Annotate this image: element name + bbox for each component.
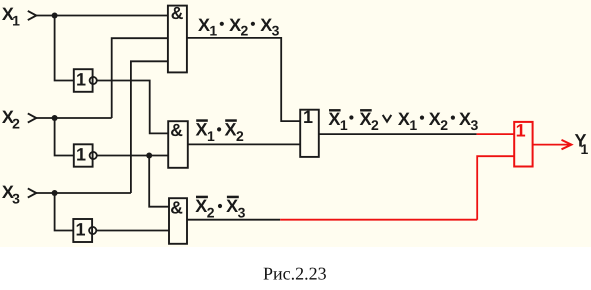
svg-text:2: 2 <box>371 117 379 133</box>
svg-text:1: 1 <box>581 141 589 157</box>
input arrow X1 <box>28 11 37 20</box>
svg-text:1: 1 <box>516 121 526 141</box>
svg-text:1: 1 <box>303 107 313 127</box>
svg-text:1: 1 <box>76 70 86 90</box>
svg-text:1: 1 <box>209 23 217 39</box>
label X1bar*X2bar <box>196 119 245 144</box>
node X1 junction <box>52 13 58 19</box>
inversion bubble NOT3 <box>89 227 96 234</box>
svg-text:X: X <box>195 196 207 216</box>
input label X2 <box>2 107 20 132</box>
AND gate AND1 <box>168 3 187 73</box>
wire X2 to riser <box>36 117 112 119</box>
svg-text:X: X <box>229 15 241 35</box>
svg-text:1: 1 <box>76 145 86 165</box>
node X3 junction <box>52 190 58 196</box>
wire X2 riser to AND1 <box>112 38 168 118</box>
wire X3 to riser <box>36 192 131 194</box>
svg-text:&: & <box>170 120 183 140</box>
wire Y1 output red <box>533 144 570 146</box>
AND gate AND2 <box>168 120 188 168</box>
svg-text:Рис.2.23: Рис.2.23 <box>263 264 327 284</box>
wire X2bar branch to AND3 <box>149 156 169 207</box>
wire AND2 output to OR <box>188 143 300 145</box>
svg-text:1: 1 <box>409 117 417 133</box>
svg-text:X: X <box>328 109 340 129</box>
svg-text:1: 1 <box>207 128 215 144</box>
inverter NOT2 <box>74 144 93 166</box>
svg-text:&: & <box>171 3 184 23</box>
wire NOT1 output to AND2 <box>97 81 169 134</box>
svg-text:3: 3 <box>272 23 280 39</box>
inverter NOT1 <box>74 69 93 92</box>
inversion bubble NOT1 <box>90 77 97 84</box>
svg-text:2: 2 <box>12 116 20 132</box>
node X2bar branch <box>146 153 152 159</box>
svg-text:1: 1 <box>76 220 86 240</box>
svg-text:X: X <box>198 15 210 35</box>
input arrow X3 <box>28 188 37 197</box>
svg-text:X: X <box>398 109 410 129</box>
label X1*X2*X3 <box>198 15 280 39</box>
svg-text:2: 2 <box>236 128 244 144</box>
wire AND1 output to OR <box>187 38 300 121</box>
inverter NOT3 <box>73 219 92 242</box>
label X2bar*X3bar <box>195 196 245 221</box>
OR gate U1 <box>300 107 319 157</box>
svg-text:X: X <box>226 196 238 216</box>
svg-text:3: 3 <box>238 204 246 220</box>
OR gate U2 (red) <box>514 121 532 167</box>
svg-text:X: X <box>225 120 237 140</box>
wire X1 drop to NOT1 <box>55 16 74 81</box>
svg-text:X: X <box>459 109 471 129</box>
svg-text:2: 2 <box>207 204 215 220</box>
svg-text:3: 3 <box>12 190 20 206</box>
svg-text:1: 1 <box>12 13 20 29</box>
wire X3 riser to AND1 <box>131 61 168 193</box>
inversion bubble NOT2 <box>90 152 97 159</box>
wire OR output black segment <box>319 133 477 135</box>
wire NOT3 output to AND3 <box>96 230 169 232</box>
wire X1 to AND1 <box>36 15 168 17</box>
wire NOT2 output to AND2 <box>97 155 169 157</box>
input label X1 <box>2 4 20 29</box>
svg-text:&: & <box>170 198 183 218</box>
input arrow X2 <box>28 113 37 122</box>
label X1bar*X2bar OR X1*X2*X3 <box>328 109 478 133</box>
wire X2 drop to NOT2 <box>55 118 74 156</box>
svg-text:X: X <box>260 15 272 35</box>
svg-text:X: X <box>196 120 208 140</box>
svg-text:2: 2 <box>440 117 448 133</box>
wire red riser to OR2 <box>477 156 514 220</box>
wire OR output red segment <box>477 133 515 135</box>
arrowhead Y1 <box>562 140 572 149</box>
svg-text:1: 1 <box>340 117 348 133</box>
wire AND3 output black segment <box>187 219 280 221</box>
svg-text:X: X <box>360 109 372 129</box>
output label Y1 <box>575 131 589 157</box>
wire AND3 output red segment <box>280 219 477 221</box>
svg-text:3: 3 <box>471 117 479 133</box>
svg-text:X: X <box>429 109 441 129</box>
svg-text:2: 2 <box>241 23 249 39</box>
wire X3 drop to NOT3 <box>55 193 74 231</box>
AND gate AND3 <box>169 198 187 244</box>
node X2 junction <box>52 115 58 121</box>
input label X3 <box>2 182 20 207</box>
